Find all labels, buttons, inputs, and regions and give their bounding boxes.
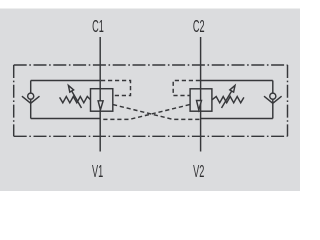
svg-text:C2: C2 [193,16,205,36]
svg-text:V2: V2 [193,161,204,181]
svg-text:V1: V1 [92,161,103,181]
svg-text:C1: C1 [92,16,104,36]
